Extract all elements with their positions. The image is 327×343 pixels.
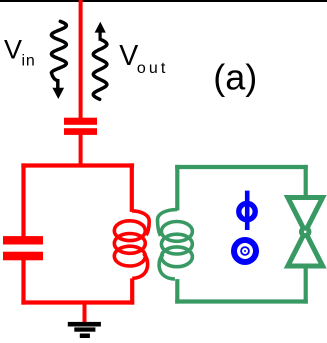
svg-text:V: V bbox=[4, 35, 22, 65]
svg-text:out: out bbox=[137, 60, 169, 77]
svg-text:(a): (a) bbox=[213, 57, 257, 98]
svg-text:V: V bbox=[119, 40, 138, 72]
svg-text:in: in bbox=[22, 53, 36, 70]
